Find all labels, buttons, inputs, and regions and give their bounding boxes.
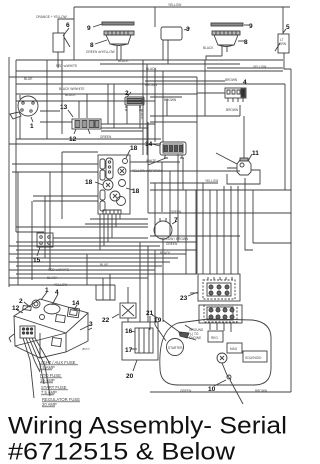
svg-text:13: 13 bbox=[60, 104, 68, 111]
svg-text:BLUE: BLUE bbox=[24, 77, 32, 81]
svg-text:10 AMP: 10 AMP bbox=[40, 378, 55, 383]
svg-text:YELLOW: YELLOW bbox=[253, 65, 266, 69]
svg-text:12: 12 bbox=[69, 136, 77, 143]
svg-text:BROWN: BROWN bbox=[226, 108, 239, 112]
svg-text:3: 3 bbox=[89, 321, 93, 328]
svg-text:7.5 AMP: 7.5 AMP bbox=[41, 390, 57, 395]
svg-text:RED w/WHITE: RED w/WHITE bbox=[48, 268, 69, 272]
svg-text:BROWN: BROWN bbox=[225, 78, 238, 82]
svg-text:18: 18 bbox=[130, 145, 138, 152]
svg-text:11: 11 bbox=[252, 150, 259, 157]
svg-text:BLACK: BLACK bbox=[140, 109, 144, 120]
svg-text:(8177): (8177) bbox=[82, 347, 90, 351]
svg-text:8: 8 bbox=[244, 39, 248, 46]
svg-text:RED w/WHITE: RED w/WHITE bbox=[56, 64, 77, 68]
svg-text:GREEN: GREEN bbox=[180, 389, 192, 393]
svg-text:23: 23 bbox=[180, 295, 188, 302]
svg-text:BLACK: BLACK bbox=[146, 67, 157, 71]
svg-text:#6712515 & Below: #6712515 & Below bbox=[8, 439, 236, 464]
svg-text:GREEN: GREEN bbox=[166, 242, 178, 246]
svg-text:4: 4 bbox=[243, 79, 247, 86]
svg-text:1: 1 bbox=[30, 123, 34, 130]
svg-text:18: 18 bbox=[85, 179, 93, 186]
svg-text:BROWN: BROWN bbox=[255, 389, 268, 393]
svg-text:Wiring Assembly- Serial: Wiring Assembly- Serial bbox=[8, 413, 287, 440]
svg-text:REG.: REG. bbox=[211, 336, 219, 340]
svg-text:GREEN w/YELLOW: GREEN w/YELLOW bbox=[86, 50, 115, 54]
svg-text:14: 14 bbox=[72, 300, 80, 307]
svg-text:7: 7 bbox=[174, 217, 178, 224]
svg-text:ENGINE: ENGINE bbox=[189, 336, 201, 340]
svg-text:10: 10 bbox=[208, 386, 216, 393]
svg-text:GREEN: GREEN bbox=[100, 135, 112, 139]
svg-text:ORANGE + YELLOW: ORANGE + YELLOW bbox=[36, 15, 67, 19]
svg-text:7.5 AMP: 7.5 AMP bbox=[39, 365, 55, 370]
svg-text:20: 20 bbox=[126, 373, 134, 380]
svg-text:YELLOW / BROWN: YELLOW / BROWN bbox=[160, 237, 189, 241]
svg-text:4: 4 bbox=[55, 289, 59, 296]
svg-text:17: 17 bbox=[125, 347, 133, 354]
svg-text:9: 9 bbox=[249, 23, 253, 30]
svg-text:9: 9 bbox=[87, 25, 91, 32]
svg-text:18: 18 bbox=[132, 188, 140, 195]
svg-text:2: 2 bbox=[125, 90, 129, 97]
svg-text:YELLOW: YELLOW bbox=[168, 3, 181, 7]
svg-text:SOLENOID: SOLENOID bbox=[245, 356, 262, 360]
svg-text:12: 12 bbox=[12, 305, 20, 312]
svg-text:8: 8 bbox=[90, 42, 94, 49]
svg-text:GRN: GRN bbox=[279, 42, 287, 46]
svg-text:BLACK: BLACK bbox=[118, 59, 129, 63]
svg-text:22: 22 bbox=[102, 317, 110, 324]
svg-text:YELLOW: YELLOW bbox=[54, 283, 67, 287]
svg-text:15: 15 bbox=[33, 257, 41, 264]
svg-text:BLUE: BLUE bbox=[100, 263, 108, 267]
svg-text:BLACK: BLACK bbox=[47, 276, 58, 280]
svg-text:BLACK: BLACK bbox=[160, 251, 171, 255]
svg-text:3: 3 bbox=[186, 26, 190, 33]
svg-text:WHITE: WHITE bbox=[146, 159, 156, 163]
svg-text:BLACK: BLACK bbox=[203, 46, 214, 50]
svg-text:5: 5 bbox=[286, 24, 290, 31]
svg-text:MAG: MAG bbox=[230, 347, 238, 351]
svg-text:BLACK W/WHITE: BLACK W/WHITE bbox=[59, 87, 85, 91]
svg-text:BLACK: BLACK bbox=[65, 93, 76, 97]
svg-text:YELLOW: YELLOW bbox=[205, 179, 218, 183]
svg-text:L: L bbox=[110, 157, 112, 161]
svg-text:STARTER: STARTER bbox=[168, 346, 183, 350]
svg-text:GREEN: GREEN bbox=[170, 210, 182, 214]
svg-text:6: 6 bbox=[66, 22, 70, 29]
svg-text:20 AMP: 20 AMP bbox=[42, 402, 57, 407]
svg-text:2: 2 bbox=[19, 298, 23, 305]
svg-text:BROWN: BROWN bbox=[164, 98, 177, 102]
svg-text:19: 19 bbox=[154, 317, 162, 324]
svg-text:16: 16 bbox=[125, 328, 133, 335]
svg-text:21: 21 bbox=[146, 310, 154, 317]
svg-text:BROWN: BROWN bbox=[145, 83, 158, 87]
svg-text:14: 14 bbox=[145, 141, 153, 148]
svg-text:YELLOW w/BROWN: YELLOW w/BROWN bbox=[132, 169, 162, 173]
svg-text:1: 1 bbox=[45, 287, 49, 294]
